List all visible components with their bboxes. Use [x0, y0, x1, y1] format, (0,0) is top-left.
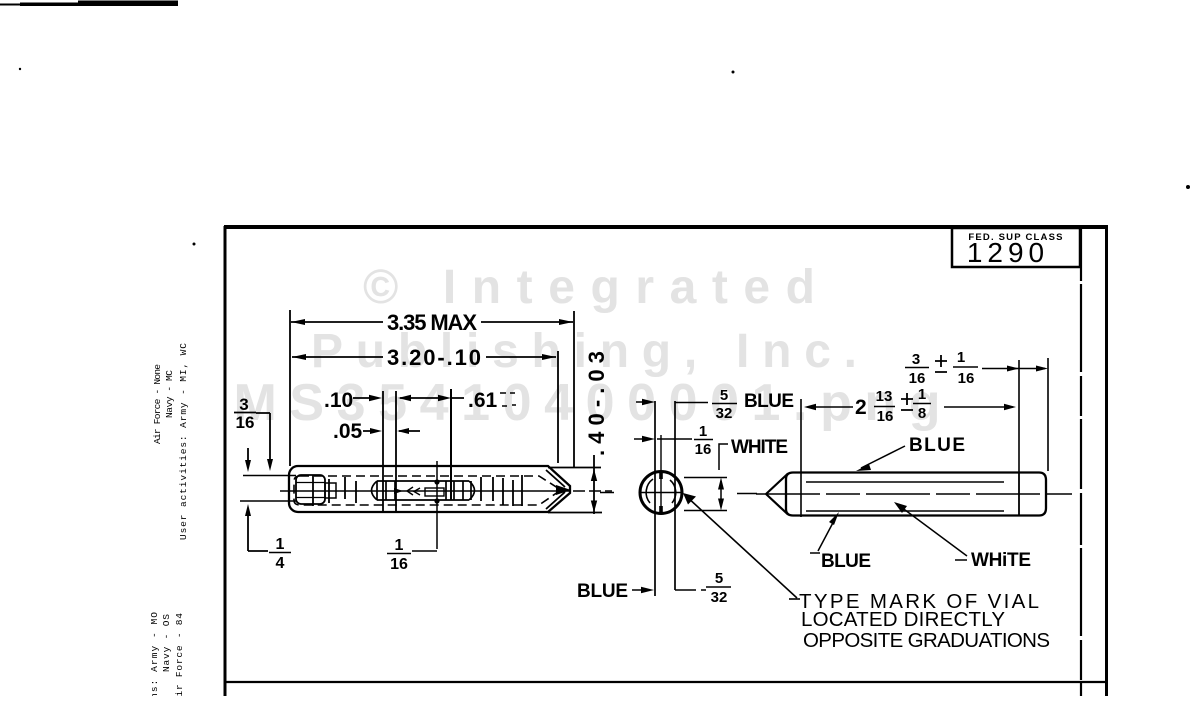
user activities rotated text — [152, 343, 189, 540]
fraction 1/16 mid — [695, 423, 712, 458]
white dim vertical — [720, 481, 722, 507]
custodians rotated text — [149, 612, 185, 701]
ext line x1048 — [1047, 358, 1049, 471]
extension line right x574 — [573, 311, 575, 468]
circle cross — [640, 435, 683, 514]
svg-text:1: 1 — [699, 423, 707, 440]
svg-text:Air Force - 84: Air Force - 84 — [174, 613, 185, 696]
white band stubs — [684, 478, 727, 511]
svg-text:.10: .10 — [324, 389, 353, 412]
leader .05 — [363, 430, 420, 432]
svg-text:BLUE: BLUE — [821, 551, 871, 572]
svg-text:BLUE: BLUE — [577, 581, 628, 602]
axis left stubs — [240, 476, 296, 502]
svg-text:5: 5 — [715, 570, 723, 587]
long leader to note — [686, 496, 797, 598]
band boundary x1019 — [1018, 472, 1020, 516]
dim .40 stubs — [548, 468, 602, 513]
svg-text:WHiTE: WHiTE — [971, 550, 1031, 571]
svg-text:BLUE: BLUE — [909, 435, 965, 456]
svg-text:BLUE: BLUE — [744, 391, 794, 412]
inner band lines — [806, 482, 1004, 511]
plus minus 2 — [935, 355, 947, 372]
extension lines x655 x675 — [655, 401, 675, 596]
svg-text:32: 32 — [711, 589, 728, 606]
axis into circle — [600, 493, 757, 494]
axis arrow mark — [394, 488, 403, 494]
plug notch — [325, 483, 336, 498]
frame bottom inner line — [224, 681, 1106, 683]
svg-text:16: 16 — [877, 408, 894, 425]
vial outline — [289, 466, 570, 512]
svg-text:WHITE: WHITE — [731, 437, 788, 458]
svg-text:.61: .61 — [468, 389, 498, 412]
fraction 1/16 top — [957, 349, 975, 387]
scan bar top-left — [0, 1, 178, 7]
frame top border — [224, 225, 1108, 229]
speck dots — [193, 243, 196, 246]
arrowheads left dims — [245, 319, 573, 516]
fraction 3/16 top — [909, 351, 926, 387]
svg-text:Custodians: Army - MO: Custodians: Army - MO — [149, 612, 160, 696]
frame left border — [224, 226, 227, 696]
svg-text:2: 2 — [855, 396, 867, 419]
bracket 1-16 — [412, 550, 437, 552]
cylinder body — [786, 473, 1046, 516]
plus minus — [901, 393, 913, 410]
dim line 3.20 — [292, 356, 556, 358]
svg-text:16: 16 — [390, 556, 408, 573]
vial left plug — [296, 475, 325, 504]
svg-text:4: 4 — [276, 555, 285, 572]
cone tip — [766, 474, 788, 515]
svg-text:LOCATED DIRECTLY: LOCATED DIRECTLY — [801, 608, 1005, 631]
svg-text:16: 16 — [695, 441, 712, 458]
capsule ticks — [377, 481, 471, 500]
svg-text:3: 3 — [912, 351, 920, 368]
svg-text:16: 16 — [909, 370, 926, 387]
extension line x558 — [557, 351, 559, 463]
small arrow line x252 upper — [247, 448, 249, 461]
svg-text:32: 32 — [716, 405, 733, 422]
vial inner dashed outline — [294, 476, 561, 505]
vial axis — [280, 490, 570, 492]
end view circle — [640, 472, 682, 514]
frame right border — [1105, 226, 1108, 696]
graduation ticks left — [313, 475, 356, 506]
dash before white — [955, 559, 967, 561]
fraction 1/8 — [918, 386, 926, 422]
dim .61 line — [400, 397, 464, 399]
ext line x1019 up — [1018, 360, 1020, 472]
fraction 5/32 top — [716, 387, 733, 422]
dim .40 vertical lines — [593, 455, 595, 514]
extension line left x290 — [289, 310, 291, 466]
svg-text:1: 1 — [276, 536, 285, 553]
vial tip arrow — [556, 485, 571, 495]
fraction 1/16 — [390, 537, 408, 573]
svg-text:Navy - MC: Navy - MC — [164, 370, 175, 418]
fed sup class box — [952, 228, 1080, 267]
dots after .61 — [500, 393, 516, 406]
svg-text:Air Force - None: Air Force - None — [152, 364, 163, 444]
svg-text:OPPOSITE GRADUATIONS: OPPOSITE GRADUATIONS — [803, 629, 1050, 652]
bracket 1-4 — [248, 550, 268, 552]
dim line 2 13/16 — [814, 406, 1013, 408]
leader blue bottom — [810, 517, 836, 553]
white bracket — [719, 444, 728, 470]
tiny chevrons — [407, 487, 420, 495]
leader blue top — [861, 446, 905, 468]
fraction 5/32 bottom — [711, 570, 728, 606]
leader white — [897, 504, 967, 556]
svg-text:3.35 MAX: 3.35 MAX — [387, 310, 477, 335]
leader .10 — [353, 397, 378, 399]
circle thick ticks — [659, 471, 663, 514]
svg-text:Navy - OS: Navy - OS — [161, 614, 172, 672]
svg-text:5: 5 — [720, 387, 728, 404]
bubble capsule — [372, 481, 475, 500]
svg-text:16: 16 — [236, 413, 255, 432]
cylinder axis — [756, 493, 1072, 495]
inner arcs — [646, 479, 676, 503]
fraction 3/16 — [236, 395, 255, 432]
top dim 5/32 — [636, 401, 708, 404]
svg-text:1: 1 — [395, 537, 404, 554]
frame inner right vertical — [1080, 229, 1082, 696]
bracket 3-16 — [256, 413, 270, 461]
svg-text:8: 8 — [918, 405, 926, 422]
vial tip inner chevron — [546, 470, 565, 509]
svg-text:1: 1 — [918, 386, 926, 403]
svg-text:.05: .05 — [333, 420, 363, 443]
svg-text:1290: 1290 — [967, 237, 1049, 268]
ext line x801 — [800, 399, 802, 517]
svg-text:User activities: Army - MI, W: User activities: Army - MI, WC — [178, 343, 189, 540]
dim 3/16 line — [982, 368, 1045, 370]
graduation ticks right — [481, 475, 522, 506]
small arrow line x252 lower — [247, 516, 249, 551]
extension pair x383 x396 — [383, 391, 396, 512]
fraction 1/4 — [276, 536, 285, 572]
dim line 3.35 MAX — [291, 321, 573, 323]
svg-text:16: 16 — [958, 370, 975, 387]
dim 1/16 line — [634, 438, 692, 440]
small rect mark — [425, 488, 444, 496]
note text line 1 — [789, 598, 800, 600]
svg-text:3: 3 — [239, 395, 248, 414]
svg-text:13: 13 — [876, 388, 893, 405]
bottom dim 5/32 — [632, 589, 706, 591]
extension x451 — [450, 389, 452, 500]
svg-text:1: 1 — [957, 349, 965, 366]
fraction 13/16 — [876, 388, 894, 425]
vertical line to 1-16 — [436, 461, 438, 549]
